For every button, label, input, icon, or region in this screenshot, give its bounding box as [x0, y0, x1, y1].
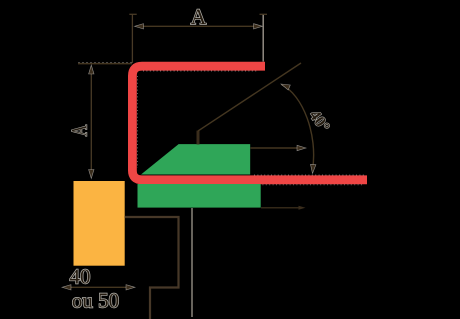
svg-text:40: 40 [70, 265, 91, 289]
arrowhead bottom of arc [311, 164, 316, 173]
angle arc [282, 85, 314, 171]
arrowhead down of left A dimension [89, 170, 94, 179]
arrowhead left of 40 dimension [62, 285, 71, 290]
arrowhead of horizontal reference line [297, 145, 306, 150]
svg-text:A: A [68, 125, 92, 137]
green lower die block [138, 184, 261, 208]
vertical dimension line A (left side) [90, 67, 92, 176]
extension line at top of vertical A dimension [78, 63, 132, 65]
arrowhead top of arc [281, 84, 290, 90]
wire: anti-alias speckles along red profile [138, 71, 365, 185]
green clamp wedge (trapezoid) [141, 144, 250, 174]
svg-text:A: A [191, 4, 207, 29]
extension line left of top A dimension [129, 14, 136, 63]
tick on right extension line [260, 13, 268, 15]
small arrowhead of leader line [299, 206, 306, 210]
angle vertex stub line [197, 131, 200, 145]
dimension line A (top) [137, 25, 260, 27]
arrowhead right of 40 dimension [126, 285, 135, 290]
dimension line 40 (bottom) [64, 286, 133, 288]
arrowhead right of top A dimension [254, 24, 263, 29]
horizontal reference line of angle [250, 147, 299, 149]
extension line right of top A dimension (light gray) [262, 14, 264, 62]
machine frame step outline [125, 217, 179, 319]
leader line right of green die [261, 207, 300, 209]
red bent sheet profile [132, 66, 367, 180]
svg-text:ou 50: ou 50 [72, 289, 119, 313]
inclined 40-degree line [198, 63, 301, 131]
gray centerline below die [191, 208, 193, 317]
orange support block [74, 181, 125, 266]
arrowhead up of left A dimension [89, 65, 94, 74]
arrowhead left of top A dimension [135, 24, 144, 29]
